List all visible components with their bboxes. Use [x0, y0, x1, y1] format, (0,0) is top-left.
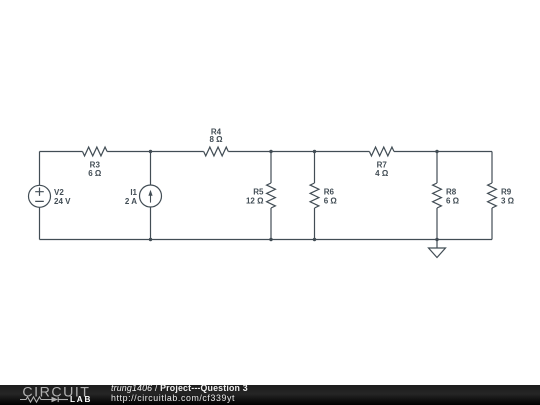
wire I1 branch [150, 152, 152, 240]
svg-text:2 A: 2 A [125, 197, 137, 206]
wire top: R4 to R7 [228, 151, 369, 153]
resistor R8 [436, 152, 438, 184]
current source I1 [140, 185, 162, 207]
svg-text:R9: R9 [501, 187, 512, 196]
svg-text:24 V: 24 V [54, 197, 71, 206]
svg-text:R5: R5 [253, 187, 264, 196]
component labels [54, 127, 515, 205]
svg-text:6 Ω: 6 Ω [324, 196, 338, 205]
logo resistor-diode line [20, 397, 68, 402]
svg-text:I1: I1 [130, 188, 137, 197]
svg-text:4 Ω: 4 Ω [375, 169, 389, 178]
svg-text:12 Ω: 12 Ω [246, 196, 264, 205]
resistor R6 [314, 152, 316, 184]
svg-text:8 Ω: 8 Ω [209, 135, 223, 144]
wire left V2 branch [39, 152, 41, 240]
svg-text:R8: R8 [446, 187, 457, 196]
footer bar [0, 385, 540, 405]
resistor R5 [270, 152, 272, 184]
svg-text:LAB: LAB [70, 395, 92, 404]
svg-text:R6: R6 [324, 187, 335, 196]
resistor R3 [83, 147, 108, 156]
svg-text:trung1406 / Project---Question: trung1406 / Project---Question 3 [111, 383, 248, 393]
node dots [149, 150, 439, 241]
wire bottom [40, 239, 493, 241]
voltage source V2 [29, 185, 51, 207]
svg-text:6 Ω: 6 Ω [446, 196, 460, 205]
ground [436, 240, 438, 249]
svg-text:http://circuitlab.com/cf339yt: http://circuitlab.com/cf339yt [111, 393, 235, 403]
wire top: V2 to R3 [40, 151, 83, 153]
resistor R9 [491, 152, 493, 184]
svg-text:3 Ω: 3 Ω [501, 196, 515, 205]
svg-text:V2: V2 [54, 188, 64, 197]
resistor R4 [204, 147, 229, 156]
wire top: R7 to right edge [394, 151, 492, 153]
resistor R7 [369, 147, 394, 156]
wire top: R3 to R4 [107, 151, 204, 153]
svg-text:6 Ω: 6 Ω [88, 169, 102, 178]
